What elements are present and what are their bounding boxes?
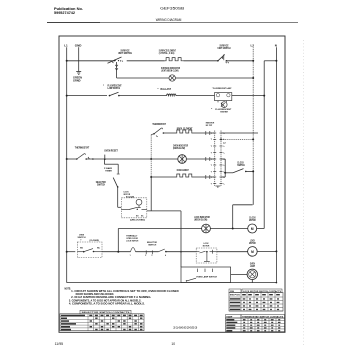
svg-text:(UNLOCKED): (UNLOCKED) <box>130 219 145 221</box>
wire to surface indicator <box>117 77 169 79</box>
wire selector to lock mech box <box>117 187 119 207</box>
wire top rail L1 to L2 <box>67 60 115 62</box>
motor clock motor <box>248 224 257 233</box>
wire lock motor switch to motor <box>217 251 248 253</box>
selector switch label lower <box>147 242 157 247</box>
svg-text:316602653: 316602653 <box>173 325 198 329</box>
wire N-branch vertical x264 <box>263 61 265 229</box>
lock motor label <box>249 239 256 245</box>
svg-text:OVEN RESET: OVEN RESET <box>104 150 118 153</box>
header publication text <box>54 7 83 15</box>
lock indicator label <box>194 216 210 222</box>
svg-text:LAMP: LAMP <box>250 265 255 268</box>
svg-text:WIRING DIAGRAM: WIRING DIAGRAM <box>156 18 182 22</box>
lock mechanism dashed box <box>121 198 147 218</box>
svg-text:4: 4 <box>165 254 166 257</box>
lock motor switch label <box>203 243 210 248</box>
lamp lock indicator <box>202 224 211 233</box>
svg-text:SW POS: SW POS <box>230 295 241 297</box>
ground symbol <box>76 72 81 75</box>
oven lamp label <box>250 262 255 268</box>
svg-text:N: N <box>275 43 277 47</box>
svg-text:2: 2 <box>145 255 146 257</box>
svg-text:* FLUORESCENT LAMP: * FLUORESCENT LAMP <box>212 87 232 90</box>
svg-text:LOCK SWITCH: LOCK SWITCH <box>126 241 138 243</box>
svg-text:*: * <box>158 88 159 91</box>
clock switch label <box>237 162 245 168</box>
wire clock motor to N branch <box>257 228 265 230</box>
svg-text:MOTOR: MOTOR <box>249 242 256 245</box>
wire GND vertical <box>78 47 80 71</box>
svg-text:NOTE:: NOTE: <box>65 287 72 290</box>
lock motor switch dashed box <box>196 248 217 263</box>
thermostat contacts table <box>226 315 285 332</box>
door switch dashed box <box>77 242 102 258</box>
wire jog y204.8 <box>233 204 253 206</box>
wire bottom rail <box>67 282 277 284</box>
svg-text:11/95: 11/95 <box>55 342 64 346</box>
perforation dotted line <box>303 40 305 346</box>
wire lock indicator rail <box>118 228 201 230</box>
wire box to oven lamp <box>231 274 247 276</box>
svg-text:(CLOSED): (CLOSED) <box>90 240 100 242</box>
wire selector to lock motor switch <box>166 251 196 253</box>
svg-text:L2: L2 <box>251 43 255 47</box>
svg-text:OVEN LAMP SWITCH: OVEN LAMP SWITCH <box>196 276 217 279</box>
clock motor label <box>249 217 256 223</box>
fuse oven protector <box>104 155 106 160</box>
wire oven rail from L1 <box>67 158 77 160</box>
oven lamp switch box <box>181 267 231 283</box>
wire broil to strip <box>194 132 215 134</box>
wire riser x232.7 <box>232 205 234 229</box>
svg-text:MOTOR: MOTOR <box>203 246 210 248</box>
svg-text:LIGHT (NEON GLOW): LIGHT (NEON GLOW) <box>161 69 179 72</box>
svg-text:UNIT SWITCH: UNIT SWITCH <box>218 47 231 50</box>
wire thermostat2 drop dotted <box>150 135 152 177</box>
resistor bake element <box>176 174 194 177</box>
svg-text:SWITCH: SWITCH <box>148 244 156 246</box>
svg-text:▼: ▼ <box>80 239 82 242</box>
wire to clock switch <box>225 172 233 174</box>
svg-text:NO TOP: NO TOP <box>206 125 213 127</box>
svg-text:THERMOSTAT: THERMOSTAT <box>75 146 90 149</box>
connector ticks broil <box>206 131 210 135</box>
svg-text:(1 TOTAL, 4 EA): (1 TOTAL, 4 EA) <box>159 52 175 55</box>
switch clock switch <box>233 169 247 173</box>
lamp oven indicator <box>178 155 187 164</box>
wire N elbow <box>264 60 276 62</box>
surface element label <box>159 50 176 56</box>
wire bake from drop <box>151 176 175 178</box>
svg-text:SWITCH: SWITCH <box>237 164 245 167</box>
wire connector chevrons below switch <box>115 62 118 78</box>
switch selector switch <box>113 178 118 188</box>
header title WIRING DIAGRAM <box>47 18 298 22</box>
wire L1 vertical bus <box>66 47 68 282</box>
switch fluorescent lamp switch <box>109 92 120 96</box>
svg-text:3: 3 <box>151 255 152 257</box>
switch thermostat left <box>76 154 94 160</box>
thermal door lock labels <box>126 235 138 243</box>
fluorescent lamp switch label <box>103 84 122 90</box>
svg-text:LAMP SWITCH: LAMP SWITCH <box>108 87 121 90</box>
switch surface unit switch right label <box>218 45 231 51</box>
svg-text:GEF350SB: GEF350SB <box>160 7 185 11</box>
lamp fluorescent starter <box>221 102 227 108</box>
wire strip L2 tap <box>221 138 253 140</box>
svg-text:GRND: GRND <box>73 79 81 82</box>
connector ticks oven rail <box>206 157 210 161</box>
terminal strip dashed verticals <box>215 131 221 187</box>
diagram border frame <box>59 36 285 332</box>
fluorescent starter label <box>211 108 232 114</box>
svg-text:M: M <box>251 227 254 231</box>
notes block <box>65 287 179 305</box>
wire bake drop to lock mech wire <box>150 177 152 211</box>
svg-text:UNIT SWITCH: UNIT SWITCH <box>118 52 132 55</box>
switch surface unit switch left label <box>118 50 132 56</box>
terminal strip ticks and labels <box>211 133 226 188</box>
switch surface unit switch left <box>108 57 124 63</box>
svg-text:P. BAKE: P. BAKE <box>104 167 113 170</box>
wire surface indicator to L2 <box>175 77 253 79</box>
wire lock mech out <box>147 210 181 212</box>
wire door switch to junction <box>102 251 131 253</box>
wire broil strip to L2 <box>221 132 258 134</box>
wire N vertical bus <box>275 47 277 282</box>
svg-text:THERMOSTAT: THERMOSTAT <box>152 123 166 126</box>
svg-text:*: * <box>103 84 104 87</box>
wire riser x181 <box>180 211 182 267</box>
svg-text:5995274742: 5995274742 <box>54 11 75 15</box>
svg-text:*: * <box>211 108 212 111</box>
svg-text:L1: L1 <box>64 43 68 47</box>
wire lamp rail from L1 <box>67 95 107 97</box>
wire lock rail from L1 <box>67 251 76 253</box>
lamp surface indicator light <box>169 75 175 81</box>
lock motor switch contacts table <box>229 289 283 311</box>
fluorescent lamp assembly <box>215 93 232 103</box>
inductor ballast coil <box>167 94 176 96</box>
wire selector drop from rail <box>104 159 119 174</box>
lamp oven lamp <box>247 269 257 279</box>
svg-text:BALLAST: BALLAST <box>161 88 172 91</box>
wire lock motor to N <box>257 250 276 252</box>
contacts inside lock motor switch <box>196 250 217 262</box>
surface indicator label <box>161 67 180 73</box>
resistor broil element <box>176 130 194 133</box>
wire L2 vertical bus <box>252 47 254 171</box>
thermal switch hump <box>131 248 136 252</box>
oven indicator label <box>173 145 188 151</box>
oven lamp switch contacts <box>186 269 218 282</box>
selector switch label <box>96 181 106 187</box>
selector switch contacts table <box>60 310 144 330</box>
wire clock switch to L2 drop <box>246 170 253 172</box>
svg-text:10: 10 <box>171 342 175 346</box>
svg-text:BAKE ELEMENT: BAKE ELEMENT <box>177 169 189 172</box>
svg-text:2. 60 HZ IGNITION RESONLARE CO: 2. 60 HZ IGNITION RESONLARE CONNECTOR F … <box>71 296 151 299</box>
motor lock motor <box>248 247 258 257</box>
svg-text:FLUORESCENT: FLUORESCENT <box>215 109 232 111</box>
door switch label <box>78 234 100 242</box>
svg-text:GND: GND <box>75 43 83 47</box>
wire oven lamp to bottom rail <box>251 280 253 283</box>
svg-text:STARTER: STARTER <box>220 111 228 114</box>
switch surface unit switch right <box>217 54 229 63</box>
switch thermostat right <box>153 128 164 137</box>
wire bake strip stub <box>221 176 225 178</box>
wire riser from lock circuit <box>117 229 119 252</box>
wire with selector contacts <box>130 249 167 257</box>
connector ticks bake <box>206 175 210 179</box>
svg-text:M: M <box>251 250 254 254</box>
svg-text:(NEON GLOW): (NEON GLOW) <box>194 219 207 222</box>
resistor surface element <box>165 58 184 61</box>
svg-text:4. COMPONENTS, A TO B DO NOT A: 4. COMPONENTS, A TO B DO NOT APPEAR ALL,… <box>69 303 145 306</box>
lock mechanism label <box>124 192 135 199</box>
svg-text:SWITCH: SWITCH <box>97 184 105 187</box>
switch inside lock mechanism <box>121 207 147 217</box>
svg-text:(NEON GLOW): (NEON GLOW) <box>173 147 185 150</box>
svg-text:TIMER: TIMER <box>105 171 112 173</box>
motor inside lock mechanism <box>136 199 142 207</box>
svg-text:MOTOR: MOTOR <box>249 219 256 222</box>
switch inside door switch box <box>77 248 102 253</box>
wire strip right to clock switch drop <box>221 158 225 160</box>
wire lamp rail to N branch <box>232 95 264 97</box>
terminal strip label <box>206 123 215 127</box>
svg-text:1: 1 <box>130 255 131 257</box>
ground wire label <box>73 77 82 83</box>
